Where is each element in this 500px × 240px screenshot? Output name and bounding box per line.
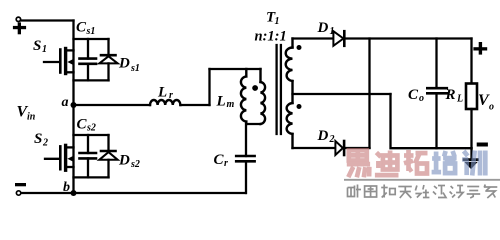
svg-text:L: L xyxy=(157,84,167,100)
inductor Lr xyxy=(150,100,180,105)
svg-text:1: 1 xyxy=(275,16,280,27)
wire center tap drop xyxy=(391,94,472,148)
wire S2 bottom branch xyxy=(74,176,109,178)
plus sign input xyxy=(13,22,26,34)
input minus terminal xyxy=(16,191,20,195)
svg-text:m: m xyxy=(227,99,235,110)
capacitor Cs1 xyxy=(80,39,97,80)
ground xyxy=(464,148,478,168)
wire riser up xyxy=(208,69,210,105)
wire secondary top to D1 xyxy=(293,37,334,39)
node a xyxy=(71,102,77,108)
wire S1 top branch xyxy=(74,38,109,40)
diode Ds1 xyxy=(99,39,117,80)
resistor RL xyxy=(466,39,477,149)
transformer secondary top winding xyxy=(286,39,293,104)
wire top parallel branch xyxy=(210,68,261,70)
svg-text:D: D xyxy=(317,128,329,144)
wire main left vertical xyxy=(72,21,74,194)
minus sign input xyxy=(15,183,26,186)
svg-text:a: a xyxy=(62,95,69,110)
svg-text:r: r xyxy=(169,90,173,101)
wire secondary bottom to D2 xyxy=(293,147,336,149)
transistor S1 xyxy=(44,49,74,74)
transformer core xyxy=(275,45,277,134)
svg-text:C: C xyxy=(214,152,225,168)
watermark underline xyxy=(344,179,500,181)
svg-text:L: L xyxy=(456,93,463,104)
svg-text:1: 1 xyxy=(42,44,47,55)
svg-text:1: 1 xyxy=(330,26,335,37)
svg-text:C: C xyxy=(77,116,88,132)
input plus terminal xyxy=(16,17,20,21)
minus sign output xyxy=(477,143,488,147)
svg-text:C: C xyxy=(76,20,87,36)
svg-text:S: S xyxy=(33,38,41,54)
wire node a to Lr xyxy=(77,104,151,106)
svg-text:S: S xyxy=(34,131,42,147)
svg-text:D: D xyxy=(118,56,130,72)
svg-text:r: r xyxy=(224,158,228,169)
watermark logo big characters xyxy=(347,150,486,177)
transistor S2 xyxy=(45,145,74,170)
wire S2 top branch xyxy=(74,134,109,136)
wire center tap xyxy=(293,93,391,95)
wire S1 bottom branch xyxy=(74,79,109,81)
svg-text:C: C xyxy=(408,87,419,103)
svg-text:D: D xyxy=(118,152,130,168)
capacitor Co xyxy=(427,39,447,149)
polarity dot secondary bottom xyxy=(297,104,302,109)
svg-text:n:1:1: n:1:1 xyxy=(255,28,287,44)
svg-text:o: o xyxy=(419,93,424,104)
wire bottom parallel branch xyxy=(246,123,260,125)
capacitor Cr xyxy=(236,124,254,193)
svg-text:o: o xyxy=(489,102,494,113)
wire bottom rail xyxy=(21,192,246,194)
svg-text:s1: s1 xyxy=(130,63,140,74)
svg-text:L: L xyxy=(216,94,226,110)
wire rectifier junction vertical xyxy=(368,39,370,149)
svg-text:2: 2 xyxy=(42,137,48,148)
capacitor Cs2 xyxy=(80,135,97,177)
node b xyxy=(71,190,77,196)
polarity dot primary xyxy=(252,85,258,91)
svg-text:s2: s2 xyxy=(86,123,96,134)
transformer T1 primary winding xyxy=(261,69,266,124)
plus sign output xyxy=(473,42,487,55)
diode D2 xyxy=(335,141,344,155)
svg-text:s2: s2 xyxy=(130,159,140,170)
watermark small text xyxy=(348,185,498,199)
svg-text:2: 2 xyxy=(329,134,335,145)
wire top rail left xyxy=(21,19,73,21)
svg-text:b: b xyxy=(63,180,70,195)
transformer secondary bottom winding xyxy=(287,103,293,148)
wire D1 to output top rail xyxy=(345,37,472,39)
wire D2 to junction vertical xyxy=(344,147,369,149)
polarity dot secondary top xyxy=(297,45,302,50)
wire Lr to riser xyxy=(180,104,209,106)
diode Ds2 xyxy=(99,135,117,177)
svg-text:D: D xyxy=(317,20,329,36)
diode D1 xyxy=(333,31,344,46)
inductor Lm xyxy=(241,69,246,124)
svg-text:s1: s1 xyxy=(86,26,96,37)
svg-text:in: in xyxy=(27,111,36,122)
svg-text:R: R xyxy=(445,87,456,103)
